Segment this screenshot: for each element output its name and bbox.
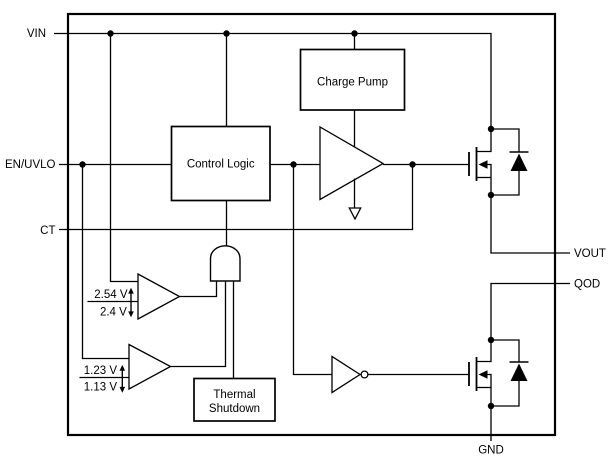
arrow down 2.4V (130, 302, 132, 312)
transistor Q2 channel bar (476, 357, 478, 391)
transistor Q1 source stub (477, 177, 492, 179)
inverter U7 (332, 357, 360, 393)
transistor Q2 body arrow (488, 375, 492, 407)
wire VIN pin stub (54, 33, 111, 35)
node VIN-C (351, 30, 357, 36)
node Q1 drain (488, 126, 494, 132)
threshold line U3 (88, 301, 139, 303)
transistor Q1 gate bar (468, 152, 470, 176)
wire gate node to inverter input (294, 165, 333, 375)
wire VIN to Charge Pump top (354, 34, 356, 50)
node gate-Q1 (409, 161, 415, 167)
IC boundary box (68, 14, 555, 435)
svg-text:VIN: VIN (27, 28, 46, 40)
transistor Q1 channel bar (476, 147, 478, 181)
wire QOD (491, 284, 570, 341)
wire EN to EN comparator input (83, 165, 130, 359)
node Q1 source (488, 192, 494, 198)
transistor Q2 gate bar (468, 362, 470, 386)
node VIN-B (223, 30, 229, 36)
wire VIN to UVLO comparator input (111, 34, 139, 282)
AND gate U5 (211, 246, 241, 281)
block U6 Thermal Shutdown (194, 379, 275, 422)
node Q2 source (488, 403, 494, 409)
wire Charge Pump to gate driver (354, 110, 356, 148)
gate driver amplifier (320, 127, 383, 200)
threshold line U4 (80, 377, 130, 379)
node driver-in (290, 161, 296, 167)
transistor Q1 body arrow (488, 165, 492, 196)
diode D2 wires (491, 340, 519, 362)
svg-text:2.4 V: 2.4 V (100, 306, 127, 318)
wire VIN rail (111, 34, 492, 130)
wire EN/UVLO to Control Logic (59, 164, 172, 166)
wire Control Logic to gate driver (270, 164, 320, 166)
svg-text:Charge Pump: Charge Pump (317, 77, 388, 89)
svg-text:Thermal: Thermal (213, 389, 255, 401)
wire U4 output to AND (171, 281, 226, 367)
node Q2 drain (488, 337, 494, 343)
svg-text:Shutdown: Shutdown (209, 403, 260, 415)
svg-text:1.23 V: 1.23 V (84, 365, 118, 377)
diode D1 wires (491, 129, 519, 152)
svg-text:2.54 V: 2.54 V (94, 289, 128, 301)
inverter bubble (361, 371, 368, 378)
comparator U4 (EN 1.23V) (129, 345, 171, 390)
node EN (79, 161, 85, 167)
wire CT to gate node (59, 165, 413, 230)
svg-text:1.13 V: 1.13 V (84, 382, 118, 394)
wire Control Logic to AND gate (226, 201, 228, 247)
transistor Q2 source stub (477, 387, 492, 389)
transistor Q2 drain stub (477, 340, 492, 362)
svg-text:CT: CT (40, 225, 55, 237)
wire Thermal Shutdown to AND (233, 281, 235, 379)
wire Q2 source to GND (490, 406, 492, 441)
svg-text:VOUT: VOUT (574, 248, 606, 260)
wire VIN to Control Logic top (226, 34, 228, 127)
arrow down 1.13V (121, 378, 123, 387)
svg-text:QOD: QOD (574, 279, 600, 291)
node VIN-A (107, 30, 113, 36)
diode D1 triangle (511, 154, 528, 172)
transistor Q1 drain stub (477, 129, 492, 152)
block U2 Control Logic (172, 127, 271, 201)
block U1 Charge Pump (301, 50, 405, 111)
wire driver discharge stem (354, 179, 356, 209)
comparator U3 (UVLO 2.54V) (138, 274, 180, 319)
svg-text:GND: GND (478, 445, 504, 457)
svg-text:EN/UVLO: EN/UVLO (5, 159, 56, 171)
diode D2 cathode bar (510, 361, 529, 363)
arrow up 1.23V (121, 370, 123, 377)
diode D1 cathode bar (510, 151, 529, 153)
diode D2 triangle (511, 364, 528, 382)
wire U3 output to AND (180, 281, 217, 297)
svg-text:Control Logic: Control Logic (187, 159, 255, 171)
arrow up 2.54V (130, 293, 132, 302)
wire inverter output to Q2 gate (368, 374, 469, 376)
wire driver output to Q1 gate (383, 164, 469, 166)
arrow driver discharge (349, 208, 360, 219)
wire Q1 source to VOUT (491, 195, 570, 253)
